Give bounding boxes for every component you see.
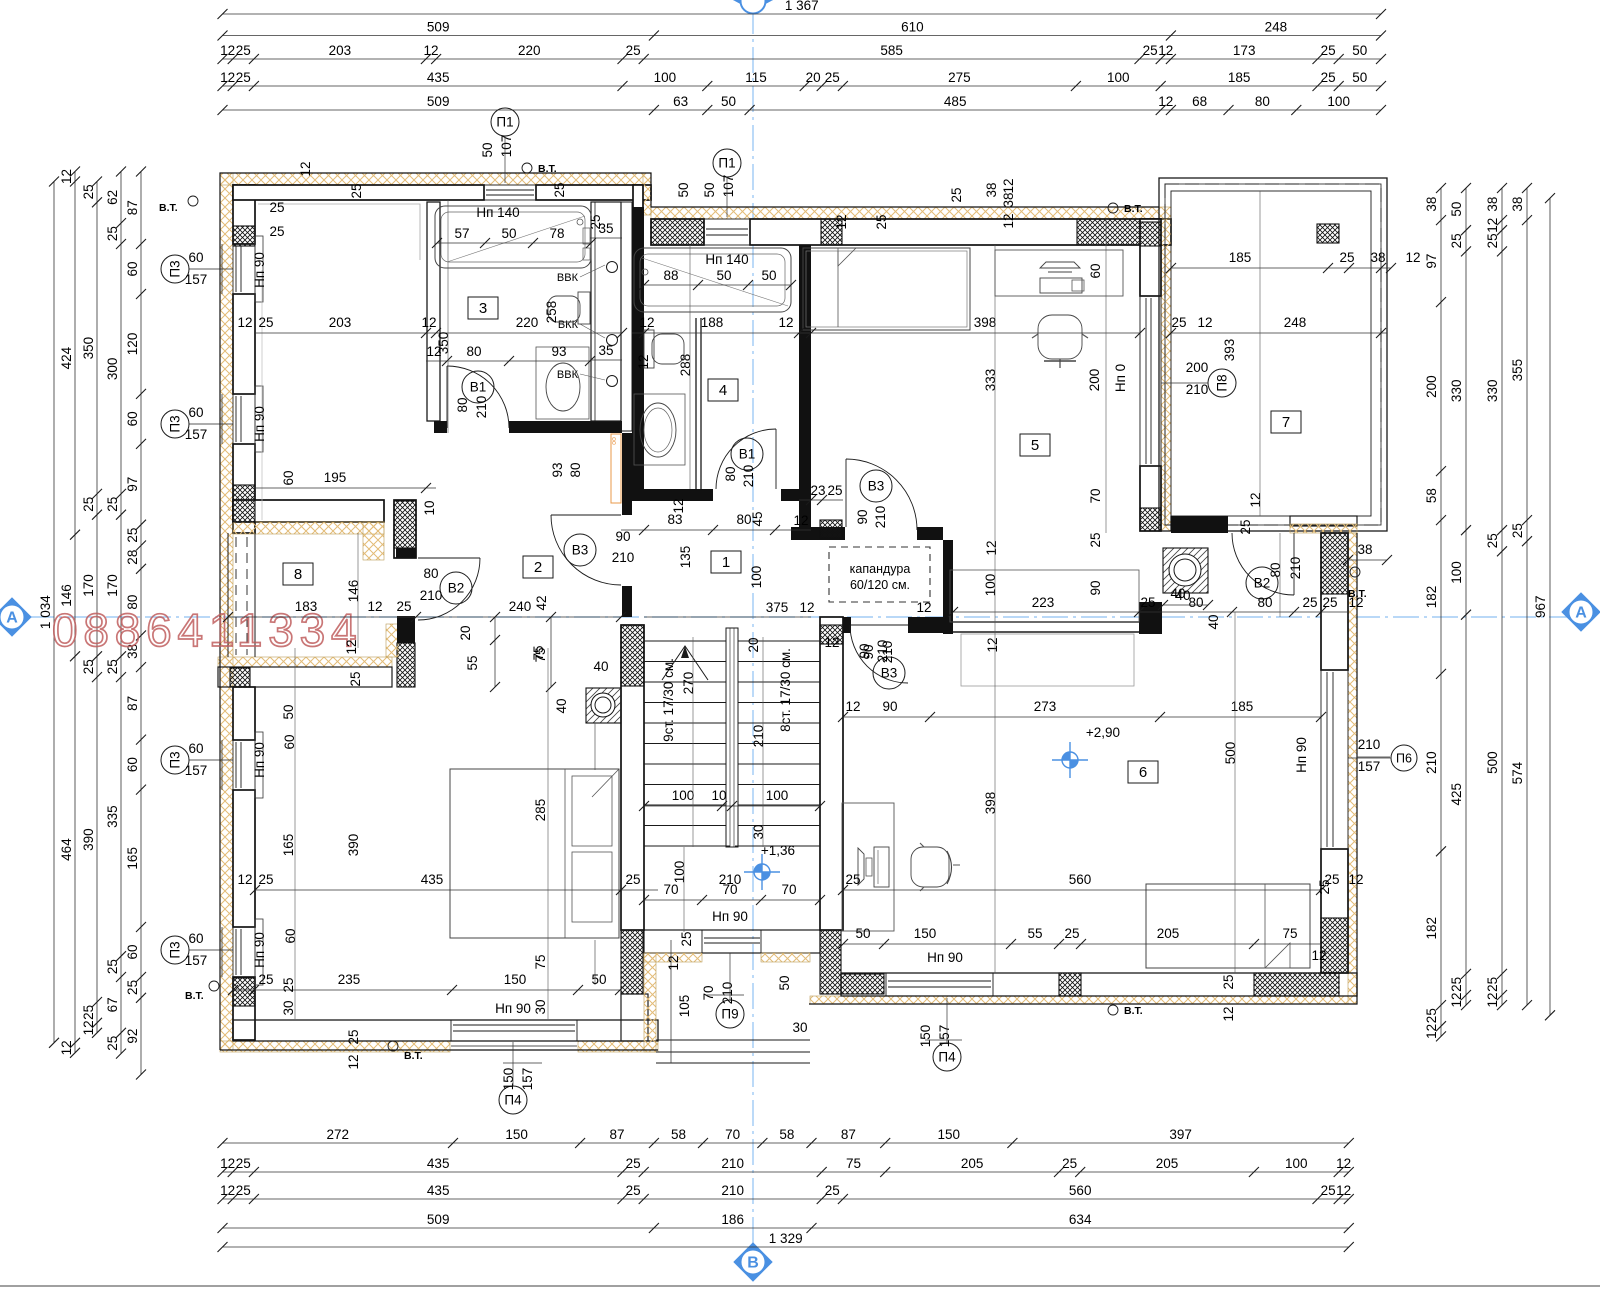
svg-text:20: 20 <box>458 625 473 640</box>
svg-text:П1: П1 <box>496 115 513 130</box>
svg-text:210: 210 <box>751 725 766 748</box>
label B3 hall <box>564 534 596 566</box>
dim 40 chimney6 <box>1158 588 1213 610</box>
sink room4 <box>634 394 685 465</box>
svg-text:80: 80 <box>1268 562 1283 577</box>
svg-text:12: 12 <box>1485 218 1500 233</box>
svg-text:25: 25 <box>1485 977 1500 992</box>
svg-text:25: 25 <box>1171 315 1186 330</box>
svg-text:25: 25 <box>1449 233 1464 248</box>
svg-text:12: 12 <box>845 699 860 714</box>
left wall window reveals <box>233 244 255 294</box>
svg-text:157: 157 <box>185 272 208 287</box>
svg-text:150: 150 <box>918 1025 933 1048</box>
svg-text:63: 63 <box>673 94 688 109</box>
svg-text:285: 285 <box>533 799 548 822</box>
svg-text:60: 60 <box>125 411 140 426</box>
svg-text:210: 210 <box>420 588 443 603</box>
svg-text:12: 12 <box>778 315 793 330</box>
vent B.T. top-mid <box>522 163 557 175</box>
dim left chain3 <box>81 177 102 1038</box>
svg-text:Нп 90: Нп 90 <box>1294 737 1309 773</box>
svg-text:200: 200 <box>1186 360 1209 375</box>
window P4 left <box>453 1024 575 1026</box>
svg-text:12: 12 <box>916 600 931 615</box>
svg-text:12: 12 <box>1197 315 1212 330</box>
axis marker A right <box>1562 593 1600 631</box>
svg-text:50: 50 <box>1352 43 1367 58</box>
dim bath3 220 <box>237 315 627 338</box>
axis A horizontal blue dash-dot line <box>28 616 1568 618</box>
svg-text:200: 200 <box>1424 375 1439 398</box>
label P1 right <box>713 149 741 177</box>
svg-text:12: 12 <box>1449 993 1464 1008</box>
window P8 <box>1140 296 1161 466</box>
axis marker B top (partial) <box>734 0 772 10</box>
stairs up arrow <box>662 646 708 680</box>
svg-text:25: 25 <box>105 226 120 241</box>
svg-text:75: 75 <box>846 1156 861 1171</box>
svg-text:П8: П8 <box>1215 374 1230 391</box>
chimney near room6/terrace <box>1163 548 1208 593</box>
svg-text:186: 186 <box>721 1212 744 1227</box>
svg-text:В.Т.: В.Т. <box>404 1050 423 1062</box>
kapandura dashed box <box>829 547 930 602</box>
svg-text:25: 25 <box>281 977 296 992</box>
axis marker A left <box>0 598 31 636</box>
door B3 bedroom5 <box>846 459 917 530</box>
svg-text:60: 60 <box>188 931 203 946</box>
bath4 bottom wall with door B1 gap <box>632 489 713 501</box>
dim top row2 <box>218 20 1387 41</box>
svg-text:185: 185 <box>1231 699 1254 714</box>
wall exterior left: insulation band <box>220 173 233 1050</box>
svg-text:634: 634 <box>1069 1212 1092 1227</box>
svg-text:12: 12 <box>344 639 359 654</box>
svg-text:182: 182 <box>1424 917 1439 940</box>
entry wall (white body) with door window P9 <box>644 930 820 953</box>
svg-text:А: А <box>6 610 18 627</box>
svg-text:38: 38 <box>1485 197 1500 212</box>
svg-text:390: 390 <box>346 834 361 857</box>
svg-text:210: 210 <box>721 1183 744 1198</box>
svg-text:107: 107 <box>721 175 736 198</box>
svg-text:248: 248 <box>1265 20 1288 35</box>
svg-text:50: 50 <box>480 142 495 157</box>
wall room6 northwest with door B3 gap <box>843 617 851 633</box>
svg-text:210: 210 <box>721 1156 744 1171</box>
svg-text:30: 30 <box>751 824 766 839</box>
dim left chain4 <box>105 167 126 1059</box>
svg-text:240: 240 <box>509 599 532 614</box>
svg-text:оо: оо <box>611 437 618 445</box>
svg-text:170: 170 <box>81 574 96 597</box>
svg-text:25: 25 <box>1064 926 1079 941</box>
closet room5/6 <box>950 570 1139 622</box>
svg-text:П3: П3 <box>168 751 183 768</box>
svg-text:1: 1 <box>722 554 730 571</box>
svg-text:12: 12 <box>1485 993 1500 1008</box>
svg-text:12: 12 <box>799 600 814 615</box>
right 38 dim <box>1348 559 1387 561</box>
svg-text:90: 90 <box>882 699 897 714</box>
room8 left opening dashed lines <box>227 533 229 657</box>
svg-text:25: 25 <box>626 1183 641 1198</box>
svg-text:210: 210 <box>1288 557 1303 580</box>
svg-text:485: 485 <box>944 94 967 109</box>
dim left chain1 total <box>38 177 59 1048</box>
svg-text:40: 40 <box>593 659 608 674</box>
svg-text:60: 60 <box>188 250 203 265</box>
annotation texts <box>185 135 1381 1091</box>
svg-text:500: 500 <box>1223 742 1238 765</box>
svg-text:38: 38 <box>1001 192 1016 207</box>
svg-text:67: 67 <box>105 997 120 1012</box>
wall exterior right of room 6 with window P6 <box>1348 533 1357 1004</box>
bed room6 <box>1146 884 1310 968</box>
duct strip x621 white <box>621 202 632 431</box>
svg-text:12: 12 <box>298 161 313 176</box>
bottom page boundary line <box>0 1285 1600 1287</box>
svg-text:12: 12 <box>1158 94 1173 109</box>
svg-text:25: 25 <box>1321 1183 1336 1198</box>
svg-text:146: 146 <box>346 580 361 603</box>
svg-text:58: 58 <box>779 1127 794 1142</box>
svg-text:60: 60 <box>281 470 296 485</box>
svg-text:60: 60 <box>188 405 203 420</box>
svg-text:12: 12 <box>220 1183 235 1198</box>
label B3 room6 <box>873 657 905 689</box>
svg-text:57: 57 <box>454 226 469 241</box>
porch step lines <box>656 1039 810 1041</box>
svg-text:25: 25 <box>125 980 140 995</box>
svg-text:150: 150 <box>914 926 937 941</box>
dim axis 375 <box>644 600 815 617</box>
dim bottom row1 <box>218 1127 1354 1148</box>
svg-text:12: 12 <box>834 214 849 229</box>
svg-text:203: 203 <box>329 315 352 330</box>
svg-text:509: 509 <box>427 94 450 109</box>
svg-text:25: 25 <box>258 872 273 887</box>
svg-text:80: 80 <box>1188 595 1203 610</box>
svg-text:25: 25 <box>236 1156 251 1171</box>
wall room5 bottom thin y622 <box>953 621 1140 623</box>
svg-text:93: 93 <box>550 462 565 477</box>
dim 23/25 <box>799 483 843 505</box>
wall corridor x622 lower <box>622 433 632 515</box>
svg-text:100: 100 <box>983 574 998 597</box>
svg-text:183: 183 <box>295 599 318 614</box>
svg-text:Нп 90: Нп 90 <box>252 932 267 968</box>
svg-text:40: 40 <box>1170 586 1185 601</box>
svg-text:В1: В1 <box>739 447 756 462</box>
svg-text:157: 157 <box>937 1025 952 1048</box>
wall bottom of room 6 (white body) with window <box>810 996 1357 1004</box>
svg-text:7: 7 <box>1282 414 1290 431</box>
svg-text:12: 12 <box>59 169 74 184</box>
svg-text:157: 157 <box>1358 759 1381 774</box>
svg-text:60: 60 <box>125 945 140 960</box>
axis B vertical blue dash-dot line <box>752 8 754 1252</box>
svg-text:А: А <box>1575 605 1587 622</box>
svg-text:80: 80 <box>455 397 470 412</box>
svg-text:25: 25 <box>258 972 273 987</box>
svg-text:220: 220 <box>516 315 539 330</box>
svg-text:П3: П3 <box>168 941 183 958</box>
dim entry 105 <box>670 940 672 1063</box>
svg-text:12: 12 <box>793 513 808 528</box>
svg-text:90: 90 <box>857 643 872 658</box>
svg-text:100: 100 <box>1449 561 1464 584</box>
bathtub room3 <box>435 206 591 268</box>
dim room5 90-210 kap <box>861 640 895 663</box>
svg-text:58: 58 <box>671 1127 686 1142</box>
orange shaft marker <box>611 434 621 503</box>
svg-text:25: 25 <box>346 1029 361 1044</box>
svg-text:20: 20 <box>806 70 821 85</box>
svg-text:12: 12 <box>984 540 999 555</box>
stairwell right wall <box>820 617 843 930</box>
dim room6 bottom <box>838 926 1321 949</box>
svg-text:150: 150 <box>505 1127 528 1142</box>
svg-text:574: 574 <box>1510 761 1525 784</box>
svg-text:12: 12 <box>81 1020 96 1035</box>
svg-text:157: 157 <box>185 763 208 778</box>
room label 6 <box>1128 761 1158 783</box>
svg-text:509: 509 <box>427 20 450 35</box>
chair room6 <box>911 847 949 887</box>
svg-text:капандура: капандура <box>850 562 911 576</box>
door B1 bath3 <box>447 366 509 428</box>
svg-text:25: 25 <box>269 200 284 215</box>
dim right chain2 <box>1449 183 1471 1010</box>
svg-text:50: 50 <box>761 268 776 283</box>
svg-text:25: 25 <box>1302 595 1317 610</box>
svg-text:Нп 140: Нп 140 <box>705 252 748 267</box>
svg-text:+1,36: +1,36 <box>761 843 795 858</box>
svg-text:25: 25 <box>349 183 364 198</box>
wall partition left of bath 3 (white body) <box>427 202 440 421</box>
entry door window P9 <box>704 937 760 939</box>
svg-text:25: 25 <box>396 599 411 614</box>
room8 top wall <box>233 500 384 522</box>
toilet room3 <box>578 292 590 324</box>
svg-text:50: 50 <box>777 975 792 990</box>
svg-text:150: 150 <box>501 1068 516 1091</box>
svg-text:25: 25 <box>236 1183 251 1198</box>
room8 right wall with door B2 gap <box>394 500 416 558</box>
svg-text:150: 150 <box>938 1127 961 1142</box>
label B2 room8 <box>440 572 472 604</box>
room label 8 <box>283 563 313 585</box>
svg-text:12: 12 <box>639 315 654 330</box>
svg-text:70: 70 <box>725 1127 740 1142</box>
door B2 room8 <box>418 558 480 620</box>
svg-text:12: 12 <box>1001 178 1016 193</box>
svg-text:157: 157 <box>185 427 208 442</box>
terrace room 7 outer thin wall <box>1159 178 1387 531</box>
wall vertical x943 <box>943 540 953 634</box>
window in room6 bottom wall <box>888 980 991 982</box>
svg-text:100: 100 <box>1285 1156 1308 1171</box>
dim bottom row3 <box>218 1183 1354 1204</box>
svg-text:100: 100 <box>1107 70 1130 85</box>
svg-text:12: 12 <box>985 637 1000 652</box>
room label 3 <box>468 297 498 319</box>
svg-text:В.Т.: В.Т. <box>1124 1005 1143 1017</box>
room label 7 <box>1271 411 1301 433</box>
terrace chimney block <box>1317 224 1339 243</box>
dim left chain5 <box>125 167 146 1080</box>
svg-text:195: 195 <box>324 470 347 485</box>
exterior outer boundary lines <box>220 173 1357 1050</box>
svg-text:100: 100 <box>749 566 764 589</box>
dim stairs 70/70/70 <box>639 882 825 905</box>
svg-text:560: 560 <box>1069 872 1092 887</box>
stairs treads left flight <box>644 641 726 846</box>
dim hall 83/80/45 <box>621 511 811 535</box>
svg-text:25: 25 <box>825 70 840 85</box>
svg-text:80: 80 <box>568 462 583 477</box>
room label 2 <box>523 556 553 578</box>
svg-text:424: 424 <box>59 346 74 369</box>
svg-text:+2,90: +2,90 <box>1086 725 1120 740</box>
svg-text:62: 62 <box>105 190 120 205</box>
chair bedroom5 <box>1038 315 1082 359</box>
svg-text:25: 25 <box>236 43 251 58</box>
svg-text:275: 275 <box>948 70 971 85</box>
interior gray outline top-left room <box>258 204 420 260</box>
dim bedroom bottom 235/150/50 <box>228 972 625 995</box>
svg-text:288: 288 <box>678 354 693 377</box>
svg-text:107: 107 <box>499 135 514 158</box>
svg-text:В3: В3 <box>572 543 589 558</box>
svg-text:60: 60 <box>188 741 203 756</box>
svg-text:97: 97 <box>1424 254 1439 269</box>
svg-text:330: 330 <box>1449 380 1464 403</box>
svg-text:25: 25 <box>845 872 860 887</box>
svg-text:25: 25 <box>81 1005 96 1020</box>
label B1 bath3 <box>462 371 494 403</box>
step joint top wall x643-651 <box>643 173 651 215</box>
terrace dim 248 <box>1171 332 1387 334</box>
svg-text:25: 25 <box>1339 250 1354 265</box>
svg-text:220: 220 <box>518 43 541 58</box>
label P3 window4 <box>161 936 189 964</box>
svg-text:25: 25 <box>874 214 889 229</box>
svg-text:58: 58 <box>1424 488 1439 503</box>
svg-text:97: 97 <box>125 477 140 492</box>
svg-text:248: 248 <box>1284 315 1307 330</box>
door B1 bath4 <box>716 429 776 489</box>
svg-text:398: 398 <box>983 792 998 815</box>
svg-text:50: 50 <box>591 972 606 987</box>
svg-text:100: 100 <box>766 788 789 803</box>
svg-text:150: 150 <box>504 972 527 987</box>
svg-text:5: 5 <box>1031 437 1039 454</box>
svg-text:1 329: 1 329 <box>769 1231 803 1246</box>
svg-text:205: 205 <box>961 1156 984 1171</box>
svg-text:425: 425 <box>1449 783 1464 806</box>
dim top row5 <box>218 94 1387 115</box>
vent B.T. bottom-left <box>388 1041 423 1062</box>
dim axis 223 <box>948 595 1171 617</box>
svg-text:90: 90 <box>855 509 870 524</box>
svg-text:В3: В3 <box>881 666 898 681</box>
svg-text:25: 25 <box>625 872 640 887</box>
dim right chain1 <box>1424 183 1446 1041</box>
svg-text:210: 210 <box>1424 751 1439 774</box>
svg-text:330: 330 <box>1485 380 1500 403</box>
svg-text:Нп 90: Нп 90 <box>495 1001 531 1016</box>
svg-text:12: 12 <box>220 70 235 85</box>
dim bath3 57/50/78 <box>432 226 596 248</box>
svg-text:210: 210 <box>741 465 756 488</box>
svg-text:210: 210 <box>720 982 735 1005</box>
svg-text:25: 25 <box>1140 595 1155 610</box>
label P9 <box>716 1000 744 1028</box>
svg-text:210: 210 <box>1186 382 1209 397</box>
svg-text:25: 25 <box>236 70 251 85</box>
svg-text:25: 25 <box>1510 523 1525 538</box>
svg-text:397: 397 <box>1169 1127 1192 1142</box>
label P4 bottom-left <box>499 1086 527 1114</box>
vent B.T. right <box>1348 567 1367 600</box>
svg-text:300: 300 <box>105 358 120 381</box>
svg-text:203: 203 <box>329 43 352 58</box>
terrace dim 185/25/38 <box>1171 267 1391 269</box>
dim left chain2 <box>59 167 80 1058</box>
svg-text:8ст. 17/30 см.: 8ст. 17/30 см. <box>778 648 793 732</box>
svg-text:30: 30 <box>792 1020 807 1035</box>
svg-text:60: 60 <box>1088 263 1103 278</box>
window P1b in top-right wall <box>704 219 750 245</box>
svg-text:1 034: 1 034 <box>38 595 53 629</box>
svg-text:157: 157 <box>520 1068 535 1091</box>
svg-text:25: 25 <box>827 483 842 498</box>
window P1a in top wall <box>484 185 536 200</box>
svg-text:50: 50 <box>855 926 870 941</box>
svg-text:Нп 90: Нп 90 <box>252 252 267 288</box>
dim bath4 12/188/12 <box>632 315 811 338</box>
svg-text:3: 3 <box>479 300 487 317</box>
svg-text:12: 12 <box>636 354 651 369</box>
svg-text:8: 8 <box>294 566 302 583</box>
label B2 terrace <box>1246 567 1278 599</box>
svg-text:105: 105 <box>677 995 692 1018</box>
axis marker B bottom <box>734 1243 772 1281</box>
big bed bottom-left bedroom <box>450 769 619 938</box>
svg-text:205: 205 <box>1157 926 1180 941</box>
dim room5 398/333 <box>806 315 1145 338</box>
svg-text:60: 60 <box>283 928 298 943</box>
svg-text:25: 25 <box>125 528 140 543</box>
svg-text:25: 25 <box>552 182 567 197</box>
svg-text:50: 50 <box>1449 202 1464 217</box>
svg-text:355: 355 <box>1510 359 1525 382</box>
svg-text:Нп 90: Нп 90 <box>252 406 267 442</box>
svg-text:35: 35 <box>598 343 613 358</box>
svg-text:П1: П1 <box>718 156 735 171</box>
svg-text:2: 2 <box>534 559 542 576</box>
dim bath3 80/93 <box>426 344 595 366</box>
svg-text:70: 70 <box>1088 488 1103 503</box>
svg-text:210: 210 <box>1358 737 1381 752</box>
wall exterior top-left <box>220 173 651 185</box>
svg-text:38: 38 <box>1370 250 1385 265</box>
left wall column blocks <box>233 226 255 246</box>
svg-text:38: 38 <box>1424 197 1439 212</box>
